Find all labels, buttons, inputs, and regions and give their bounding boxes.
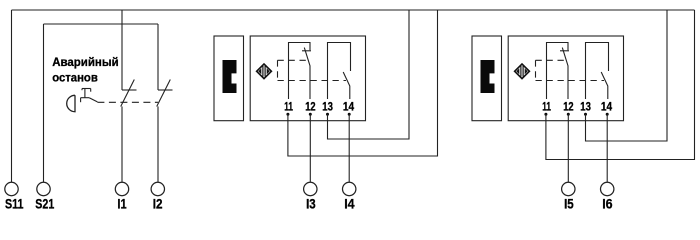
svg-text:I3: I3 [306, 197, 316, 212]
svg-text:13: 13 [322, 99, 333, 113]
svg-text:14: 14 [601, 99, 612, 113]
svg-text:I5: I5 [564, 197, 574, 212]
svg-text:11: 11 [284, 99, 293, 113]
svg-text:I2: I2 [153, 197, 163, 212]
svg-text:14: 14 [343, 99, 354, 113]
svg-text:11: 11 [542, 99, 551, 113]
svg-text:I1: I1 [117, 197, 126, 212]
svg-text:S11: S11 [5, 197, 24, 212]
svg-text:S21: S21 [35, 197, 54, 212]
svg-text:12: 12 [563, 99, 574, 113]
svg-text:13: 13 [580, 99, 591, 113]
svg-text:12: 12 [305, 99, 316, 113]
svg-text:I6: I6 [602, 197, 613, 212]
svg-text:I4: I4 [344, 197, 355, 212]
svg-text:останов: останов [52, 71, 98, 85]
svg-text:Аварийный: Аварийный [52, 55, 119, 69]
